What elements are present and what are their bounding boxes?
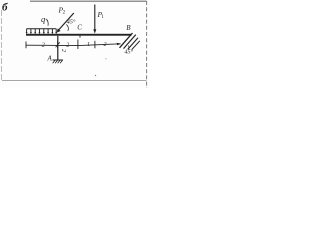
svg-text:1: 1: [87, 42, 90, 48]
svg-text:2: 2: [60, 49, 66, 52]
speck dot: [95, 75, 96, 76]
ground at A: [53, 59, 64, 61]
svg-text:q: q: [41, 14, 46, 24]
svg-text:2: 2: [42, 43, 45, 49]
dimension line: [26, 44, 121, 46]
svg-text:45°: 45°: [67, 19, 76, 26]
frame left border: [1, 10, 3, 81]
dimension tick at P1: [94, 41, 96, 49]
speck dot 2: [105, 58, 106, 59]
distributed load arrows: [26, 29, 58, 34]
distributed load q top line: [26, 28, 56, 30]
svg-text:2: 2: [63, 11, 66, 16]
support B hatching: [124, 35, 136, 49]
dimension tick at rod: [57, 42, 59, 49]
ground hatching at A: [53, 60, 63, 63]
svg-text:B: B: [126, 24, 131, 32]
frame bottom border: [2, 80, 147, 82]
svg-text:C: C: [77, 24, 82, 32]
node C tick: [79, 36, 81, 38]
svg-text:б: б: [2, 2, 8, 14]
dimension slash at rod: [56, 42, 60, 47]
force P1 arrow: [94, 5, 96, 31]
support B inclined plane: [120, 33, 133, 48]
q leader arc: [46, 19, 48, 26]
beam: [26, 34, 132, 36]
dimension tick left end: [25, 42, 27, 49]
svg-text:A: A: [47, 54, 53, 62]
support rod A: [57, 36, 59, 60]
svg-text:1: 1: [101, 15, 104, 20]
45 deg arc at P2: [66, 24, 68, 30]
frame top border: [30, 0, 147, 2]
svg-text:2: 2: [104, 42, 107, 48]
svg-text:45°: 45°: [125, 49, 134, 56]
dimension end arrowhead: [117, 43, 121, 46]
dimension tick at C: [77, 40, 79, 50]
force P2 arrow: [59, 13, 74, 30]
frame right border: [146, 1, 148, 88]
svg-text:2: 2: [66, 42, 69, 48]
45 deg arc at B: [127, 46, 130, 50]
